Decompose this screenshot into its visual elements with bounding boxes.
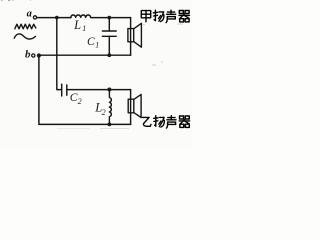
- svg-text:L: L: [73, 18, 81, 32]
- svg-text:b: b: [25, 49, 31, 61]
- label L1: [73, 18, 86, 33]
- wire b to speaker A bottom: [39, 54, 131, 56]
- char sheng: [166, 10, 176, 22]
- scan speckles (decorative): [1, 0, 183, 129]
- char yang2: [154, 116, 165, 127]
- node dot L2 bottom: [108, 123, 112, 127]
- char yi: [142, 117, 151, 126]
- svg-text:1: 1: [82, 24, 86, 33]
- label: yi yang sheng qi (speaker B text): [142, 116, 189, 128]
- label C1: [87, 36, 99, 49]
- svg-text:a: a: [27, 9, 32, 20]
- svg-text:C: C: [87, 36, 95, 48]
- char jia: [141, 11, 150, 22]
- terminal a: [27, 9, 37, 20]
- wire vertical from top node down to C2: [57, 18, 62, 90]
- label L2: [94, 101, 105, 118]
- node junction dot above C1: [107, 16, 111, 20]
- speaker A (jia): [128, 23, 141, 47]
- speaker B lead wire: [130, 90, 132, 125]
- svg-text:C: C: [70, 92, 78, 104]
- node junction dot on top wire: [55, 16, 59, 20]
- svg-text:2: 2: [102, 108, 106, 117]
- node dot L2 top: [107, 88, 111, 92]
- speaker B (yi): [128, 94, 141, 117]
- svg-text:1: 1: [95, 40, 99, 49]
- inductor L1: [71, 15, 91, 17]
- label: jia yang sheng qi (speaker A text): [141, 10, 189, 22]
- wire L1 to speaker A: [91, 17, 131, 19]
- label C2: [70, 92, 82, 106]
- svg-text:2: 2: [78, 97, 82, 106]
- node junction dot at b: [37, 53, 41, 57]
- wire C2 node to speaker B: [109, 89, 130, 91]
- speaker A lead wire: [130, 18, 132, 56]
- wire top from a to L1: [37, 17, 71, 19]
- capacitor C2: [62, 84, 110, 96]
- node dot C1 bottom on b wire: [107, 53, 111, 57]
- terminal b: [25, 49, 35, 61]
- signal source squiggle: [14, 24, 36, 39]
- char qi2: [179, 116, 189, 127]
- char qi: [179, 11, 189, 22]
- inductor L2: [109, 90, 111, 125]
- wire left vertical b down to bottom rail: [39, 56, 131, 125]
- char sheng2: [166, 116, 176, 128]
- capacitor C1: [102, 18, 116, 56]
- char yang: [153, 10, 164, 21]
